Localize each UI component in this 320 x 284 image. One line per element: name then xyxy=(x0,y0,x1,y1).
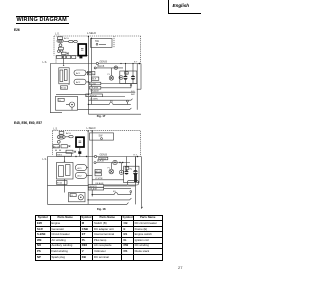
svg-text:ET.05: ET.05 xyxy=(57,183,63,185)
svg-text:OR.AGE: OR.AGE xyxy=(90,90,99,93)
svg-text:GEN.B: GEN.B xyxy=(100,153,108,156)
svg-text:AC1: AC1 xyxy=(77,167,82,170)
svg-text:ACG: ACG xyxy=(64,37,69,40)
svg-text:ET.05: ET.05 xyxy=(61,88,67,90)
svg-text:L.S.: L.S. xyxy=(42,157,47,161)
svg-text:L.S.: L.S. xyxy=(53,127,58,131)
svg-text:AC2: AC2 xyxy=(77,175,82,178)
svg-text:L.S.: L.S. xyxy=(55,32,60,36)
svg-text:LR.SIGN.B: LR.SIGN.B xyxy=(87,95,98,97)
svg-text:LT.MTR: LT.MTR xyxy=(95,178,103,180)
svg-text:AC1: AC1 xyxy=(76,72,81,75)
svg-text:BLK.B: BLK.B xyxy=(97,160,104,163)
svg-text:AC2: AC2 xyxy=(76,81,81,84)
svg-text:Ry: Ry xyxy=(130,168,132,170)
svg-text:NLT.B: NLT.B xyxy=(90,83,96,85)
svg-text:BLK.B: BLK.B xyxy=(98,65,105,68)
svg-text:AC.05: AC.05 xyxy=(95,170,101,173)
svg-text:LT.GRN: LT.GRN xyxy=(90,99,98,101)
svg-text:GEN.B: GEN.B xyxy=(100,60,108,63)
svg-text:BAT: BAT xyxy=(131,93,136,96)
svg-text:ES: ES xyxy=(110,101,113,103)
svg-text:SW: SW xyxy=(95,40,100,43)
svg-text:AC.05: AC.05 xyxy=(53,145,59,148)
svg-text:PL: PL xyxy=(108,74,111,76)
svg-text:L.S.: L.S. xyxy=(43,60,48,64)
svg-text:OR.AGE: OR.AGE xyxy=(89,188,97,191)
svg-text:SLR: SLR xyxy=(92,79,96,81)
svg-text:ACG: ACG xyxy=(66,132,71,135)
svg-text:L.SELD: L.SELD xyxy=(87,126,96,130)
svg-text:L.SELD: L.SELD xyxy=(87,31,96,35)
svg-text:OR.MTR: OR.MTR xyxy=(90,88,98,90)
svg-text:SW: SW xyxy=(99,134,104,137)
svg-text:REG: REG xyxy=(57,155,62,157)
